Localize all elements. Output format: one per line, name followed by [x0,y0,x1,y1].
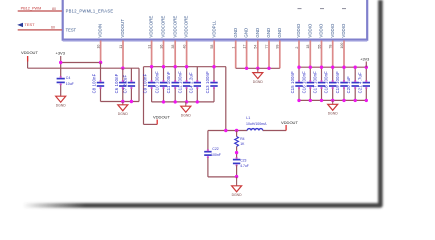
inductor L1 [247,129,263,131]
wire C16 top lead [309,67,311,81]
ground DGND (GND pins) [253,68,264,84]
svg-text:TEST: TEST [66,27,77,32]
wire VDDIO bottom rail [299,99,366,101]
wire C8 bottom lead [100,88,102,102]
wire pin 40 stub [186,41,188,67]
svg-text:C9 100nF: C9 100nF [143,73,148,93]
pin number 10 [96,45,100,49]
svg-text:C20 1uF: C20 1uF [346,76,351,94]
svg-text:DGND: DGND [328,112,339,116]
label C21 4.7uF [357,72,362,93]
wire TEST pin wire left [18,29,62,31]
svg-text:VDDOUT: VDDOUT [153,115,170,120]
capacitor C21 [363,80,370,89]
junction VDDIO bottom x=355.2 [354,99,357,102]
svg-text:VDDIO: VDDIO [307,23,312,37]
svg-text:PB12_PWM: PB12_PWM [21,6,42,10]
pin name GND [266,28,271,38]
label C19 100nF [335,71,340,94]
wire L1 to VDDOUT label [263,130,286,132]
svg-text:DGND: DGND [56,103,67,107]
ground DGND (group2) [181,102,192,118]
wire pin 17 stub [246,41,248,69]
pin name VDDIO [330,23,335,37]
wire C12 bottom lead [186,88,188,102]
wire C11 top lead [174,67,176,82]
wire VDDOUT right label red stub [285,125,287,131]
junction VDDIO bottom x=332.7 [331,99,334,102]
junction top rail x=175.2 [174,65,177,68]
pin number 78 [329,45,333,49]
svg-text:C12 100nF: C12 100nF [178,71,183,94]
junction GND rail x=246.6 [245,67,248,70]
label C16 100nF [301,71,306,94]
junction R4 / C23 [235,151,238,154]
pin number 99 [276,45,280,49]
wire C19 bottom lead [343,88,345,101]
junction VDDIO top x=321.5 [320,66,323,69]
junction GND rail x=257.8 [256,67,259,70]
pin name VDDIN [98,24,103,38]
wire pin 77 stub [268,41,270,69]
svg-text:VDDOUT: VDDOUT [281,120,298,125]
svg-text:DGND: DGND [118,112,129,116]
pin number 40 [182,45,186,49]
junction rail A / pin 10 [99,61,102,64]
wire C13 bottom lead [213,88,215,102]
pin name VDDCORE [149,16,154,38]
svg-text:C8 100nF: C8 100nF [92,73,97,93]
pin name GND [244,28,249,38]
svg-text:C7 2.2uF: C7 2.2uF [122,74,127,93]
wire pin 18 stub [309,41,311,68]
ground DGND (VDDIO) [328,100,339,115]
label C10 100nF [155,71,160,94]
svg-text:+3V3: +3V3 [360,57,369,61]
node TEST arrow port [17,23,23,27]
wire C7 top lead [130,68,132,81]
ground DGND (C4) [56,96,67,108]
label C6 100nF [114,73,119,93]
wire pin 31 stub [151,41,153,67]
svg-text:VDDCORE: VDDCORE [172,16,177,38]
junction VDDIO top x=332.7 [331,66,334,69]
capacitor C13 [210,80,217,89]
pin number 54 [254,45,258,49]
capacitor C4 [57,76,65,86]
svg-text:DGND: DGND [232,193,243,197]
svg-text:C10 100nF: C10 100nF [155,71,160,94]
capacitor C12 [183,80,190,89]
wire VDDIO top rail [299,66,366,68]
capacitor C16 [307,80,314,89]
wire C6 top lead [122,68,124,81]
svg-text:C15 100nF: C15 100nF [290,71,295,94]
junction VDDIO bottom x=366.3 [365,99,368,102]
wire VDDCORE top rail [144,66,227,68]
wire +3V3 down to C4 [60,56,62,77]
capacitor C20 [352,80,359,89]
pin name VDDCORE [161,16,166,38]
wire R4 top lead [236,131,238,137]
wire C14 top lead [196,67,198,82]
junction bottom rail x=186.6 [185,100,188,103]
wire C20 bottom lead [354,88,356,101]
pin number 100 [340,43,344,49]
wire C11 bottom lead [174,88,176,102]
pin number 11 [119,45,123,49]
wire rail A (+3V3 to VDDIN) [61,62,101,64]
svg-text:VDDOUT: VDDOUT [120,19,125,38]
junction rail A / +3V3 [59,61,62,64]
junction VDDIO top x=310.3 [309,66,312,69]
junction VDDIO top x=366.3 [365,66,368,69]
svg-text:GND: GND [266,28,271,38]
junction L1 node / VDDPLL wire [224,129,227,132]
junction top rail x=163.5 [162,65,165,68]
svg-text:10uF: 10uF [66,82,74,86]
label C18 100nF [324,71,329,94]
wire C12 top lead [186,67,188,82]
pin number 2 [295,47,299,49]
pin number 36 [159,45,163,49]
wire C22 bottom lead [207,157,209,177]
svg-text:VDDOUT: VDDOUT [21,50,38,55]
wire C21 bottom lead [365,88,367,101]
wire group2 left side down to VDDOUT elbow [143,67,145,125]
svg-text:GND: GND [255,28,260,38]
label C11 100nF [166,71,171,93]
wire pin 1 stub [235,41,237,69]
ground DGND (group1) [118,102,129,117]
wire GND rail [236,67,280,69]
junction VDDIO top x=355.2 [354,66,357,69]
wire L1 circuit bottom rail [208,176,237,178]
junction VDDIO top x=344.0 [342,66,345,69]
svg-text:VDDPLL: VDDPLL [211,20,216,38]
wire C17 top lead [321,67,323,81]
label C13 100nF [205,71,210,94]
svg-text:C14 2.2uF: C14 2.2uF [188,72,193,93]
wire +3V3 right stub [365,62,367,68]
capacitor C10 [160,80,167,89]
capacitor C17 [318,80,325,89]
wire pin 78 stub [332,41,334,68]
junction bottom rail x=175.2 [174,100,177,103]
pin number 31 [147,45,151,49]
wire L1 node rail [208,130,247,132]
wire C18 bottom lead [332,88,334,101]
svg-text:VDDCORE: VDDCORE [149,16,154,38]
svg-text:VDDCORE: VDDCORE [161,16,166,38]
junction top rail x=214.0 [212,65,215,68]
svg-text:C4: C4 [66,76,71,80]
junction L1 node / R4 branch [235,129,238,132]
junction rail B / pin 11 [121,67,124,70]
pin number 38 [171,45,175,49]
label C17 100nF [313,71,318,94]
svg-text:C19 100nF: C19 100nF [335,71,340,94]
junction VDDIO bottom x=344.0 [342,99,345,102]
svg-text:C11 100nF: C11 100nF [166,71,171,93]
wire C9 top lead [151,67,153,82]
wire pin 36 stub [163,41,165,67]
wire VDDOUT label red stub [156,120,158,125]
pin number 17 [242,45,246,49]
wire C18 top lead [332,67,334,81]
pin name VDDOUT [120,19,125,38]
pin number 55 [317,45,321,49]
capacitor C8 [97,80,104,89]
wire pin 55 stub [321,41,323,68]
wire R4 to C23 [236,147,238,159]
junction bottom rail / DGND [235,175,238,178]
pin top dashes [298,8,347,10]
svg-text:1K: 1K [240,142,245,146]
wire C10 top lead [163,67,165,82]
svg-text:10uH/100mA: 10uH/100mA [246,122,267,126]
junction VDDIO top x=299.0 [297,66,300,69]
capacitor C14 [194,80,201,89]
svg-text:PB12_PWML1_ERASE: PB12_PWML1_ERASE [66,8,114,13]
wire pin 2 stub [298,41,300,68]
wire VDDOUT label stub [27,56,29,68]
svg-text:VDDIN: VDDIN [98,24,103,38]
wire pin 58 stub [213,41,215,67]
pin name VDDIO [341,23,346,37]
svg-text:100nF: 100nF [211,153,221,157]
resistor R4 [235,137,239,147]
wire C17 bottom lead [321,88,323,101]
wire pin 100 stub [343,41,345,68]
wire C16 bottom lead [309,88,311,101]
wire VDDPLL rail down to L1 node [225,67,227,131]
junction group1 bottom / C6 [121,100,124,103]
wire C15 top lead [298,67,300,81]
svg-text:C13 100nF: C13 100nF [205,71,210,94]
label C15 100nF [290,71,295,94]
pin number 77 [265,45,269,49]
pin name VDDPLL [211,20,216,38]
wire C21 top lead [365,67,367,81]
wire pin 99 stub [279,41,281,69]
wire C9 bottom lead [151,88,153,102]
pin name GND [277,28,282,38]
wire C4 to DGND [60,84,62,96]
wire C20 top lead [354,67,356,81]
svg-text:C22: C22 [212,147,218,151]
junction top rail x=151.6 [150,65,153,68]
svg-text:80: 80 [52,7,56,11]
wire to VDDOUT label stub [144,123,158,125]
wire group1 bottom rail [101,101,140,103]
svg-text:GND: GND [233,28,238,38]
junction bottom rail x=197.3 [196,100,199,103]
wire C15 bottom lead [298,88,300,101]
svg-text:VDDIO: VDDIO [296,23,301,37]
pin number 1 [232,47,236,49]
svg-text:R4: R4 [240,137,244,141]
capacitor C9 [148,80,155,89]
wire group1 right side [138,68,140,101]
pin name VDDIO [296,23,301,37]
label C9 100nF [143,73,148,93]
wire C19 top lead [343,67,345,81]
wire rail B (VDDOUT rail) [28,67,139,69]
junction VDDIO bottom x=310.3 [309,99,312,102]
svg-text:DGND: DGND [181,113,192,117]
pin name VDDCORE [184,16,189,38]
svg-text:C23: C23 [240,159,246,163]
wire group2 bottom rail [152,101,214,103]
capacitor C11 [172,80,179,89]
label C8 100nF [92,73,97,93]
pin number 58 [210,45,214,49]
pin name VDDCORE [172,16,177,38]
label C20 1uF [346,76,351,94]
svg-text:C18 100nF: C18 100nF [324,71,329,94]
label C7 2.2uF [122,74,127,93]
pin name VDDIO [307,23,312,37]
junction GND rail x=269.0 [267,67,270,70]
junction bottom rail x=163.5 [162,100,165,103]
svg-text:VDDCORE: VDDCORE [184,16,189,38]
wire C22 top lead [207,131,209,151]
pin name GND [233,28,238,38]
junction group1 bottom / C7 [130,100,133,103]
wire C13 top lead [213,67,215,82]
capacitor C23 [233,157,240,167]
svg-text:C6 100nF: C6 100nF [114,73,119,93]
svg-text:C17 100nF: C17 100nF [313,71,318,94]
svg-text:L1: L1 [246,116,250,120]
junction VDDIO bottom x=299.0 [297,99,300,102]
svg-text:DGND: DGND [253,80,264,84]
svg-text:VDDIO: VDDIO [319,23,324,37]
svg-text:VDDIO: VDDIO [330,23,335,37]
svg-text:4.7uF: 4.7uF [240,164,249,168]
svg-text:GND: GND [244,28,249,38]
pin name GND [255,28,260,38]
wire pin 54 stub [257,41,259,69]
capacitor C15 [295,80,302,89]
label C14 2.2uF [188,72,193,93]
pin name VDDIO [319,23,324,37]
wire C23 bottom lead [236,165,238,177]
pin number 18 [306,45,310,49]
wire PB12 pin wire left [18,10,62,12]
wire C8 top lead [100,63,102,82]
svg-text:60: 60 [51,26,55,30]
op-amp U1 IC box outline [63,0,368,41]
ground DGND (L1 filter) [232,177,243,197]
capacitor C7 [128,80,135,89]
capacitor C18 [329,80,336,89]
capacitor C22 [204,149,211,158]
wire pin 11 stub [122,41,124,69]
wire pin 10 stub [100,41,102,63]
wire pin 38 stub [174,41,176,67]
capacitor C19 [340,80,347,89]
decorative shadow frame [24,0,380,205]
junction VDDIO bottom x=321.5 [320,99,323,102]
svg-text:GND: GND [277,28,282,38]
svg-text:TEST: TEST [24,22,35,27]
svg-text:VDDIO: VDDIO [341,23,346,37]
wire C14 bottom lead [196,88,198,102]
wire C6 bottom lead [122,88,124,102]
junction top rail x=186.6 [185,65,188,68]
svg-text:C21 4.7uF: C21 4.7uF [357,72,362,93]
svg-text:C16 100nF: C16 100nF [301,71,306,94]
capacitor C6 [119,80,126,89]
wire C10 bottom lead [163,88,165,102]
label C12 100nF [178,71,183,94]
wire C7 bottom lead [130,88,132,102]
svg-text:+3V3: +3V3 [56,51,66,56]
